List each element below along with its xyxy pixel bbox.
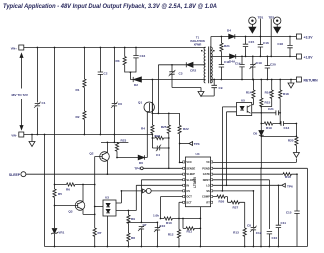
feedback R15 column xyxy=(260,80,262,131)
svg-text:C16: C16 xyxy=(263,41,269,45)
ground bias xyxy=(198,92,204,97)
wire gate column xyxy=(147,112,149,158)
snubber C16 xyxy=(135,48,137,73)
wire pin8 xyxy=(179,201,183,203)
svg-text:R22: R22 xyxy=(183,127,189,131)
Q3 transistor xyxy=(75,201,85,211)
svg-text:C15: C15 xyxy=(249,40,255,44)
svg-text:C12: C12 xyxy=(256,231,262,235)
feedback R16 column xyxy=(261,80,271,107)
wire Q2 base column xyxy=(94,157,96,247)
svg-text:IN: IN xyxy=(186,183,189,187)
svg-text:Q2: Q2 xyxy=(89,152,93,156)
testpoint TP1 xyxy=(249,17,256,24)
wire pin12 TP6 xyxy=(213,184,282,186)
feedback R18 column xyxy=(279,80,281,124)
diode CR5 xyxy=(230,54,236,59)
capacitor C19 xyxy=(252,56,254,79)
svg-text:C16: C16 xyxy=(140,54,146,58)
wire top rail VIN+ xyxy=(24,47,206,49)
svg-text:C2: C2 xyxy=(104,72,108,76)
svg-text:C19: C19 xyxy=(256,61,262,65)
wire R6 xyxy=(55,184,95,186)
svg-text:VCC: VCC xyxy=(186,160,192,164)
svg-text:R10: R10 xyxy=(166,221,172,225)
svg-text:GATE: GATE xyxy=(203,172,210,176)
ground RETURN xyxy=(290,80,292,84)
svg-text:R11: R11 xyxy=(187,230,193,234)
diode D6 xyxy=(117,157,147,159)
wire pin16 gnd xyxy=(213,161,297,163)
svg-text:R1: R1 xyxy=(76,88,80,92)
MOSFET Q1 xyxy=(144,102,154,112)
wire pin4 xyxy=(141,180,182,223)
wire TP2 net xyxy=(270,19,272,57)
svg-text:C14: C14 xyxy=(235,62,241,66)
svg-text:R26: R26 xyxy=(219,200,225,204)
svg-text:ISOLATION: ISOLATION xyxy=(190,39,204,43)
wire bottom ground rail xyxy=(45,246,308,248)
diode D5 xyxy=(259,131,264,136)
wire pin15 xyxy=(213,168,308,246)
capacitor C3 xyxy=(171,65,173,88)
svg-text:R25: R25 xyxy=(161,125,167,129)
wire D5 column to rail xyxy=(260,168,262,246)
wire TP4 pin2 xyxy=(140,167,143,170)
svg-text:+1.8V: +1.8V xyxy=(304,56,314,60)
resistor R19 xyxy=(261,123,281,125)
capacitor C2 column xyxy=(99,48,101,135)
opto U3 wires xyxy=(95,206,103,208)
svg-text:Q3: Q3 xyxy=(68,210,72,214)
capacitor C6 column xyxy=(113,48,115,135)
wire pin7 xyxy=(161,197,183,219)
wire 1.8V rail xyxy=(236,55,297,57)
diode D4 xyxy=(229,34,235,39)
svg-text:48V TO 72V: 48V TO 72V xyxy=(11,93,29,97)
capacitor C14 xyxy=(241,56,243,79)
resistor R1 R2 column xyxy=(83,48,85,135)
svg-text:VC: VC xyxy=(206,160,210,164)
terminal RETURN xyxy=(296,77,301,82)
svg-text:R16: R16 xyxy=(285,175,291,179)
transformer T1 xyxy=(209,47,211,84)
IC U4 xyxy=(185,157,210,207)
svg-text:C4: C4 xyxy=(156,153,160,157)
svg-text:C20: C20 xyxy=(270,63,276,67)
svg-text:OV: OV xyxy=(186,189,190,193)
wire VIN- rail xyxy=(24,134,153,136)
svg-text:D2: D2 xyxy=(134,83,138,87)
svg-text:R3: R3 xyxy=(116,59,120,63)
svg-text:SS: SS xyxy=(206,189,210,193)
capacitor C20 xyxy=(266,56,268,79)
terminal VIN+ xyxy=(19,45,24,50)
wire TP1 net xyxy=(259,19,261,37)
snubber R3 xyxy=(124,48,126,73)
svg-text:R19: R19 xyxy=(266,126,272,130)
wire pin14 R16h xyxy=(213,174,297,209)
wire Q2 emitter xyxy=(106,161,108,174)
svg-text:C21: C21 xyxy=(268,107,274,111)
svg-text:TP3: TP3 xyxy=(194,142,200,146)
svg-text:Typical Application - 48V Inpu: Typical Application - 48V Input Dual Out… xyxy=(3,3,217,10)
svg-text:LO: LO xyxy=(206,183,210,187)
wire D5 to R20 xyxy=(261,135,296,136)
svg-text:LT3825: LT3825 xyxy=(193,177,197,188)
svg-text:CR2: CR2 xyxy=(190,69,196,73)
svg-text:C7: C7 xyxy=(143,223,147,227)
svg-text:T1: T1 xyxy=(196,36,200,40)
svg-text:VIN+: VIN+ xyxy=(11,47,17,51)
svg-text:R5: R5 xyxy=(58,192,62,196)
svg-text:SLEEP: SLEEP xyxy=(9,173,21,177)
svg-text:R4: R4 xyxy=(141,127,145,131)
wire R10 network xyxy=(161,218,201,220)
svg-text:R27: R27 xyxy=(233,206,239,210)
svg-text:RT: RT xyxy=(206,200,210,204)
resistor R25 column xyxy=(168,113,170,168)
opto U5 wires xyxy=(222,107,236,191)
capacitor C11 xyxy=(219,65,224,67)
resistor R7 xyxy=(93,228,96,236)
svg-text:U5: U5 xyxy=(241,98,245,102)
IC pin labels xyxy=(186,160,210,204)
wire x44.5 xyxy=(44,135,46,247)
capacitor C15 xyxy=(245,37,247,57)
svg-text:R18: R18 xyxy=(283,92,289,96)
wire pin11 xyxy=(213,191,254,228)
svg-text:PGND: PGND xyxy=(202,166,210,170)
svg-text:TP4: TP4 xyxy=(134,167,140,171)
wire SLEEP net xyxy=(26,173,183,175)
svg-text:TP1: TP1 xyxy=(258,16,264,20)
terminal VIN- xyxy=(19,132,24,137)
svg-text:U3: U3 xyxy=(105,196,109,200)
resistor R4 sense xyxy=(151,125,154,133)
wire bottom caps xyxy=(128,221,157,223)
capacitor C10L xyxy=(156,222,158,246)
capacitor C1 column xyxy=(36,48,38,135)
wire bias gnd xyxy=(172,88,201,92)
svg-text:C11: C11 xyxy=(224,60,230,64)
opto U5 xyxy=(237,103,252,116)
Q2 transistor xyxy=(100,152,110,162)
diode D2 clamp xyxy=(132,77,134,82)
capacitor C18 xyxy=(289,37,291,57)
svg-text:Q1: Q1 xyxy=(138,101,142,105)
wire drain net xyxy=(141,79,205,81)
svg-text:R9: R9 xyxy=(131,217,135,221)
svg-text:R13: R13 xyxy=(233,231,239,235)
winding phase dots xyxy=(201,50,203,52)
resistor R22 column TP3 xyxy=(179,113,181,162)
svg-text:C3: C3 xyxy=(179,72,183,76)
capacitor C12 column xyxy=(252,230,254,247)
wire pin10 COMP R26 xyxy=(213,197,228,203)
wire pin6 TP5 xyxy=(121,190,182,192)
svg-text:C15: C15 xyxy=(286,211,292,215)
svg-text:RETURN: RETURN xyxy=(304,79,319,83)
resistor R9 column xyxy=(127,215,130,223)
wire 3.3V rail xyxy=(211,36,296,38)
svg-text:C8: C8 xyxy=(247,224,251,228)
resistor R24 xyxy=(152,135,168,149)
svg-text:C9: C9 xyxy=(219,86,223,90)
node x54.5 column xyxy=(54,48,56,247)
terminal +3.3V xyxy=(296,34,301,39)
svg-text:R14: R14 xyxy=(246,91,252,95)
svg-text:R21: R21 xyxy=(224,44,230,48)
svg-text:TP6: TP6 xyxy=(287,185,293,189)
resistor R12 column xyxy=(178,202,180,246)
capacitor C16b xyxy=(259,37,261,57)
diode CR2 xyxy=(185,62,187,67)
svg-text:R2: R2 xyxy=(76,115,80,119)
svg-text:D5: D5 xyxy=(253,132,257,136)
capacitor C4 xyxy=(152,147,168,149)
wire RETURN rail xyxy=(211,79,297,81)
svg-text:D6: D6 xyxy=(139,161,143,165)
svg-text:C10: C10 xyxy=(272,236,278,240)
wire pin5 xyxy=(136,185,182,210)
svg-text:R12: R12 xyxy=(168,233,174,237)
svg-text:C18: C18 xyxy=(277,42,283,46)
capacitor C10b column xyxy=(268,234,270,247)
VCC column xyxy=(157,65,159,114)
svg-text:C11: C11 xyxy=(281,221,287,225)
testpoint TP2 xyxy=(274,17,281,24)
svg-text:R23: R23 xyxy=(121,139,127,143)
svg-text:TP2: TP2 xyxy=(269,16,275,20)
wire source sense net xyxy=(152,112,179,114)
svg-text:U4: U4 xyxy=(196,152,200,156)
svg-text:C13: C13 xyxy=(284,126,290,130)
capacitor C7 xyxy=(140,229,142,247)
capacitor C13 xyxy=(284,123,297,125)
resistor R27 xyxy=(228,201,245,203)
svg-text:R20: R20 xyxy=(288,139,294,143)
svg-text:R6: R6 xyxy=(66,188,70,192)
T1 label xyxy=(190,36,204,47)
svg-text:SCT: SCT xyxy=(186,200,192,204)
svg-text:OCT: OCT xyxy=(186,195,192,199)
svg-text:R15: R15 xyxy=(265,101,271,105)
resistor R13 column xyxy=(244,202,246,246)
wire pin13 xyxy=(213,180,270,229)
snubber R21 xyxy=(220,37,222,80)
Y-cap C9 xyxy=(201,80,214,97)
bias winding rectifier wire xyxy=(158,64,205,66)
resistor R8 xyxy=(127,233,130,241)
svg-text:XFMR: XFMR xyxy=(194,42,202,46)
svg-text:NRST: NRST xyxy=(203,178,210,182)
capacitor C11b column xyxy=(277,185,279,246)
svg-text:C10: C10 xyxy=(160,224,166,228)
capacitor C15b column xyxy=(296,210,298,247)
capacitor C21 xyxy=(252,112,281,114)
terminal SLEEP xyxy=(21,172,26,177)
svg-text:1.0k: 1.0k xyxy=(153,213,159,217)
feedback R14 column xyxy=(252,80,254,105)
svg-text:C1: C1 xyxy=(42,101,46,105)
IC pin squares xyxy=(183,161,213,203)
svg-text:+3.3V: +3.3V xyxy=(304,36,314,40)
svg-text:SLEEP: SLEEP xyxy=(186,172,195,176)
wire snubber bottom xyxy=(125,72,136,80)
ground arrow at VIN- xyxy=(31,135,33,142)
terminal +1.8V xyxy=(296,54,301,59)
R20 column xyxy=(295,124,297,153)
svg-text:C6: C6 xyxy=(118,102,122,106)
svg-text:D4: D4 xyxy=(227,29,231,33)
opto U3 xyxy=(103,200,116,216)
svg-text:R24: R24 xyxy=(155,134,161,138)
wire VCC pin1 xyxy=(180,161,183,163)
resistor R5 xyxy=(53,189,56,197)
svg-text:VR1: VR1 xyxy=(58,231,64,235)
input range arrow xyxy=(21,56,23,127)
svg-text:COMP: COMP xyxy=(202,195,210,199)
wire Q2 cluster xyxy=(101,135,128,143)
svg-text:SENSE: SENSE xyxy=(186,166,195,170)
svg-text:R7: R7 xyxy=(98,231,102,235)
zener VR1 xyxy=(52,229,57,234)
resistor R23 xyxy=(116,151,118,157)
svg-text:R8: R8 xyxy=(131,236,135,240)
svg-text:R16: R16 xyxy=(265,91,271,95)
svg-text:VIN-: VIN- xyxy=(11,134,16,138)
